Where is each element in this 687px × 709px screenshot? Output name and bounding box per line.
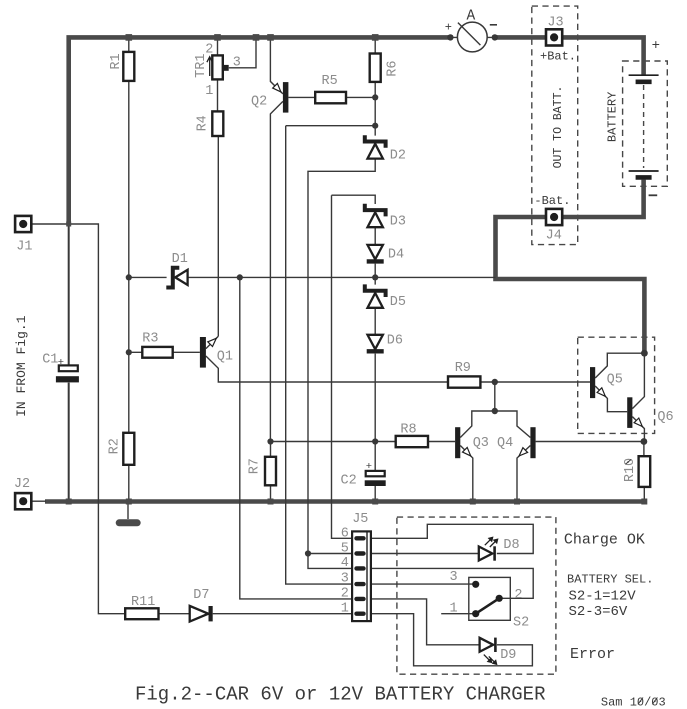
svg-text:C2: C2 bbox=[341, 474, 357, 489]
svg-text:C1: C1 bbox=[42, 353, 58, 368]
svg-text:J2: J2 bbox=[14, 477, 30, 492]
svg-text:BATTERY SEL.: BATTERY SEL. bbox=[567, 573, 653, 587]
svg-text:A: A bbox=[467, 8, 476, 24]
svg-text:-Bat.: -Bat. bbox=[534, 194, 570, 208]
svg-text:D3: D3 bbox=[390, 214, 406, 229]
svg-text:Q3 Q4: Q3 Q4 bbox=[473, 436, 514, 451]
svg-text:J1: J1 bbox=[16, 239, 32, 254]
svg-text:J3: J3 bbox=[547, 16, 563, 31]
svg-text:3: 3 bbox=[233, 56, 241, 71]
svg-text:R1: R1 bbox=[109, 53, 124, 69]
svg-text:D7: D7 bbox=[193, 588, 209, 603]
svg-text:+Bat.: +Bat. bbox=[540, 50, 576, 64]
svg-text:R11: R11 bbox=[131, 595, 155, 610]
svg-text:Q1: Q1 bbox=[217, 349, 233, 364]
svg-text:R6: R6 bbox=[386, 60, 401, 76]
svg-text:R10: R10 bbox=[623, 458, 638, 482]
svg-text:J4: J4 bbox=[546, 229, 562, 244]
svg-text:Q2: Q2 bbox=[251, 94, 267, 109]
svg-text:3: 3 bbox=[450, 570, 458, 585]
svg-text:J5: J5 bbox=[352, 512, 368, 527]
svg-text:R3: R3 bbox=[142, 332, 158, 347]
svg-text:6: 6 bbox=[341, 527, 349, 542]
svg-text:D4: D4 bbox=[388, 247, 404, 262]
svg-text:BATTERY: BATTERY bbox=[606, 92, 620, 142]
svg-text:Fig.2--CAR 6V or 12V BATTERY C: Fig.2--CAR 6V or 12V BATTERY CHARGER bbox=[135, 683, 545, 705]
svg-text:1: 1 bbox=[450, 602, 458, 617]
svg-text:S2-1=12V: S2-1=12V bbox=[569, 588, 637, 604]
svg-text:D9: D9 bbox=[500, 648, 516, 663]
svg-text:IN FROM Fig.1: IN FROM Fig.1 bbox=[14, 315, 29, 417]
svg-text:Error: Error bbox=[570, 646, 615, 663]
svg-text:+: + bbox=[366, 461, 372, 473]
svg-text:R9: R9 bbox=[455, 361, 471, 376]
svg-text:+: + bbox=[445, 20, 452, 34]
svg-text:R4: R4 bbox=[195, 115, 210, 131]
svg-text:+: + bbox=[58, 357, 64, 369]
svg-text:TR1: TR1 bbox=[194, 54, 209, 78]
svg-text:+: + bbox=[652, 38, 660, 54]
svg-text:D8: D8 bbox=[503, 538, 519, 553]
svg-text:D1: D1 bbox=[172, 252, 188, 267]
svg-text:R2: R2 bbox=[107, 438, 122, 454]
svg-text:2: 2 bbox=[514, 588, 522, 603]
svg-text:1: 1 bbox=[205, 84, 213, 99]
svg-text:Sam 10/03: Sam 10/03 bbox=[601, 696, 666, 709]
svg-text:5: 5 bbox=[341, 541, 349, 556]
svg-text:4: 4 bbox=[341, 556, 349, 571]
svg-text:S2-3=6V: S2-3=6V bbox=[569, 604, 628, 620]
svg-text:2: 2 bbox=[341, 586, 349, 601]
svg-text:OUT TO BATT.: OUT TO BATT. bbox=[552, 86, 565, 169]
svg-text:Q6: Q6 bbox=[657, 410, 673, 425]
svg-text:D5: D5 bbox=[390, 295, 406, 310]
svg-text:D6: D6 bbox=[387, 334, 403, 349]
svg-text:1: 1 bbox=[341, 601, 349, 616]
svg-text:3: 3 bbox=[341, 571, 349, 586]
svg-text:D2: D2 bbox=[390, 148, 406, 163]
svg-text:R8: R8 bbox=[400, 422, 416, 437]
svg-text:R7: R7 bbox=[248, 458, 263, 474]
svg-text:Q5: Q5 bbox=[607, 373, 623, 388]
svg-text:R5: R5 bbox=[322, 74, 338, 89]
svg-text:S2: S2 bbox=[513, 616, 529, 631]
svg-text:Charge OK: Charge OK bbox=[564, 532, 645, 549]
